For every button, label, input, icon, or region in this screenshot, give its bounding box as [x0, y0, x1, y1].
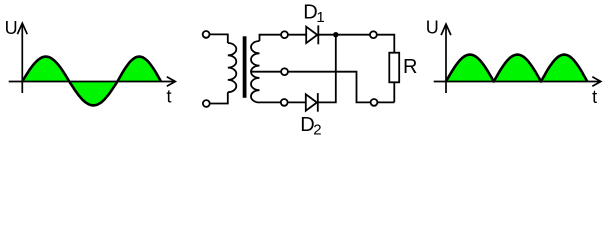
left input waveform graph: [5, 18, 176, 107]
x-axis: [434, 81, 600, 83]
diode D2: [306, 93, 318, 112]
terminal primary top: [203, 31, 210, 38]
wire top rail node to resistor: [336, 35, 395, 53]
wire center tap: [252, 72, 395, 103]
x-axis arrowhead: [167, 77, 176, 86]
terminal secondary bottom: [281, 99, 288, 106]
x-axis: [9, 81, 174, 83]
y-axis: [21, 24, 23, 93]
wire secondary bottom rail to D2: [260, 101, 306, 103]
transformer rectifier circuit: [203, 25, 399, 111]
terminal primary bottom: [203, 100, 210, 107]
svg-text:R: R: [403, 56, 417, 78]
resistor R: [389, 53, 399, 83]
sine fill: [22, 57, 161, 106]
wire node down to D2 cathode: [318, 35, 336, 103]
svg-text:U: U: [5, 18, 18, 38]
svg-text:t: t: [592, 87, 597, 107]
transformer core: [243, 36, 247, 98]
x-axis arrowhead: [592, 77, 601, 86]
terminal load bottom: [371, 99, 378, 106]
wire secondary top lead: [260, 35, 307, 41]
terminal center tap: [281, 68, 288, 75]
wire primary top lead: [206, 34, 228, 43]
svg-text:1: 1: [316, 9, 324, 26]
terminal load top: [370, 31, 377, 38]
svg-text:U: U: [426, 18, 439, 38]
wire resistor bottom lead: [393, 82, 395, 102]
svg-text:t: t: [167, 87, 172, 107]
rectified curve: [446, 55, 587, 82]
svg-text:2: 2: [313, 122, 321, 139]
secondary winding: [251, 41, 260, 103]
primary winding: [228, 43, 237, 92]
terminal secondary top: [281, 31, 288, 38]
y-axis arrowhead: [441, 24, 451, 35]
wire D1 cathode to node: [318, 34, 336, 36]
node junction dot: [333, 32, 338, 37]
diode D1: [306, 25, 318, 44]
right output waveform graph: [426, 18, 601, 108]
y-axis arrowhead: [17, 23, 27, 34]
rectified fill: [446, 55, 587, 82]
y-axis: [445, 25, 447, 93]
sine curve: [22, 57, 161, 106]
wire primary bottom lead: [206, 92, 228, 103]
